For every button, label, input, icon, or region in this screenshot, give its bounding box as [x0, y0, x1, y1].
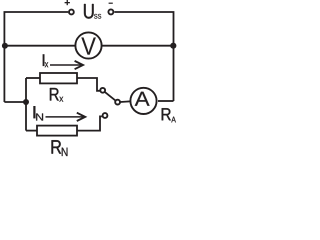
switch lever (closed to Rx contact) [105, 92, 116, 101]
label x subscript of Ix [45, 62, 49, 67]
switch pole contact [115, 100, 120, 105]
current arrow IN [46, 116, 85, 118]
label N subscript of RN [62, 148, 68, 156]
wire: top-left segment and left vertical [4, 12, 68, 102]
label R of Rx [50, 88, 59, 100]
voltmeter V1 circle [75, 32, 101, 58]
resistor RN [37, 126, 77, 136]
junction node: bottom-left / resistor column [23, 99, 29, 105]
resistor Rx [40, 73, 77, 83]
switch lower contact [103, 113, 108, 118]
current arrow Ix [50, 64, 82, 66]
label A subscript of RA [171, 117, 176, 123]
label x subscript of Rx [59, 97, 63, 102]
wire: voltmeter branch right segment [102, 45, 174, 47]
wire: switch pole to ammeter [120, 100, 130, 103]
label I of IN current [33, 106, 35, 118]
wire: top-right segment and right vertical [114, 12, 173, 101]
label A of ammeter [135, 92, 150, 106]
label N subscript of IN [36, 113, 43, 120]
wire: bottom-left horizontal to node [4, 101, 26, 103]
terminal - (source minus) [108, 9, 113, 14]
label U of USS [84, 4, 94, 19]
wire: Rx left lead [26, 77, 40, 79]
plus sign [65, 2, 70, 3]
wire: Rx branch vertical (node column) [25, 78, 27, 131]
wire: RN right lead to switch lower contact [77, 116, 102, 130]
wire: ammeter right segment [158, 100, 174, 102]
wire: voltmeter branch left segment [4, 45, 75, 47]
switch upper contact [100, 88, 105, 93]
label V of voltmeter [81, 37, 96, 54]
junction node: left vertical / voltmeter branch [2, 43, 8, 49]
minus sign [109, 3, 113, 4]
label R of RN [52, 140, 62, 153]
label SS subscript of USS [94, 14, 101, 19]
label I of Ix current [43, 54, 45, 66]
ammeter A1 circle [130, 88, 156, 114]
label R of RA [162, 108, 171, 120]
wire: Rx right lead to switch upper contact [77, 78, 100, 91]
terminal + (source plus) [69, 10, 74, 15]
junction node: right vertical / voltmeter branch [170, 43, 176, 49]
wire: RN left lead [26, 130, 37, 132]
